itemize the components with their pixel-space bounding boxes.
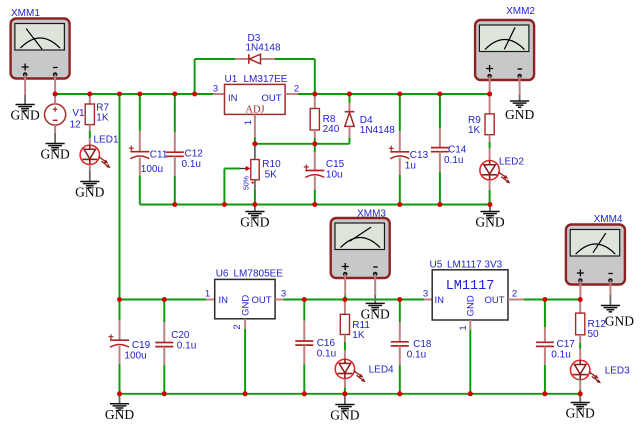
label C11 value [141, 150, 168, 176]
svg-text:1K: 1K [352, 330, 365, 341]
label C18 value [407, 339, 432, 361]
svg-text:240: 240 [323, 124, 340, 135]
V1 bottom lead [54, 125, 56, 133]
C17 bottom lead [544, 346, 546, 364]
LED1 top lead [89, 138, 91, 145]
wire R10 bottom lead [254, 180, 256, 190]
wire XMM3 + to rail [344, 296, 346, 300]
C12 bottom lead [174, 156, 176, 176]
junction input rail / C19 [117, 297, 122, 302]
ground (XMM1 +) [10, 95, 39, 123]
label R9 value [468, 115, 481, 136]
C19 top lead [119, 320, 121, 340]
wire C15 top [314, 144, 316, 152]
R12 bottom lead [579, 335, 581, 343]
svg-text:XMM3: XMM3 [357, 208, 386, 219]
junction wiper bottom [222, 202, 227, 207]
U1 IN pin lead [213, 93, 225, 95]
wire C19 bottom [119, 364, 121, 394]
XMM2 - lead [519, 76, 521, 95]
svg-text:5K: 5K [265, 170, 278, 181]
XMM4 + lead [579, 280, 581, 299]
junction C13 top [397, 92, 402, 97]
junction ADJ node [252, 141, 257, 146]
multimeter XMM4 [566, 225, 625, 285]
wire bottom input rail [120, 299, 207, 301]
XMM1 + lead [24, 74, 26, 95]
wire C16 bottom [303, 365, 305, 394]
junction R10 bottom [252, 202, 257, 207]
XMM3 - lead [374, 274, 376, 295]
junction C14 top [437, 92, 442, 97]
LED2 bottom lead [489, 180, 491, 190]
resistor R7 [85, 104, 94, 125]
R8 bottom lead [314, 130, 316, 138]
svg-text:3: 3 [213, 84, 218, 95]
svg-text:GND: GND [10, 108, 39, 123]
wire LED3 bottom [579, 390, 581, 394]
C18 bottom lead [399, 346, 401, 365]
junction C20 top [162, 297, 167, 302]
LED LED3 [571, 360, 602, 383]
svg-text:50%: 50% [244, 176, 251, 190]
C13 bottom lead [399, 158, 401, 175]
svg-text:C19: C19 [132, 340, 151, 351]
svg-text:GND: GND [105, 407, 134, 422]
wire C14 top [439, 94, 441, 128]
svg-text:0.1u: 0.1u [407, 350, 426, 361]
C12 top lead [174, 132, 176, 152]
svg-text:1: 1 [205, 289, 210, 300]
svg-text:100u: 100u [141, 164, 163, 175]
svg-text:U6: U6 [216, 268, 229, 279]
LED4 bottom lead [344, 379, 346, 388]
capacitor C16 [295, 341, 313, 345]
C11 top lead [139, 131, 141, 152]
junction C16 top [302, 297, 307, 302]
regulator U5 LM1117 3V3 [432, 270, 508, 320]
C16 bottom lead [303, 345, 305, 364]
LED3 bottom lead [579, 380, 581, 390]
svg-text:LED1: LED1 [94, 135, 119, 146]
C20 top lead [163, 322, 165, 343]
svg-text:10u: 10u [326, 170, 343, 181]
C11 bottom lead [139, 158, 141, 177]
svg-text:LM317EE: LM317EE [244, 74, 288, 85]
label V1 value [70, 108, 85, 130]
R9 bottom lead [489, 135, 491, 142]
wire C18 bottom [399, 365, 401, 394]
wire C18 top [399, 300, 401, 323]
capacitor C18 [391, 342, 409, 346]
svg-text:C11: C11 [150, 150, 168, 161]
wire U5 GND down [469, 330, 471, 394]
U6 IN pin lead [206, 299, 215, 301]
junction C15 bottom [312, 202, 317, 207]
wire R10 wiper horizontal [224, 168, 240, 170]
LED LED4 [335, 359, 366, 382]
label C19 value [124, 340, 150, 362]
svg-text:1u: 1u [405, 161, 416, 172]
ground (LED4) [330, 395, 359, 423]
svg-text:LM1117 3V3: LM1117 3V3 [447, 259, 503, 270]
junction C16 bottom [302, 391, 307, 396]
svg-text:12: 12 [70, 119, 82, 130]
LED3 top lead [579, 349, 581, 361]
ground (XMM2 -) [505, 95, 534, 122]
label U6 title [216, 268, 284, 279]
LED1 bottom lead [89, 165, 91, 172]
ground (XMM4 -) [601, 295, 634, 329]
svg-text:1N4148: 1N4148 [246, 43, 281, 54]
capacitor C20 [155, 343, 173, 347]
voltage source V1 [45, 104, 66, 125]
ground (LED2 rail) [475, 205, 504, 230]
svg-text:LED3: LED3 [605, 366, 630, 377]
capacitor C19 (polarized) [109, 334, 130, 347]
wire U6 GND down [244, 329, 246, 394]
label R10 value [262, 159, 281, 181]
wire C19 top [119, 300, 121, 321]
C17 top lead [544, 327, 546, 342]
D3 cathode-side lead [261, 58, 275, 60]
wire C11 bottom [139, 176, 141, 205]
svg-text:LED2: LED2 [499, 157, 524, 168]
wire R10 top lead [254, 144, 256, 160]
label D3 value [246, 33, 281, 54]
junction long vertical top [117, 92, 122, 97]
XMM1 - lead [54, 74, 56, 94]
wire C12 bottom [174, 176, 176, 205]
V1 top lead [54, 94, 56, 104]
svg-text:1: 1 [243, 120, 254, 125]
svg-text:1K: 1K [96, 113, 109, 124]
wire ADJ row [255, 143, 350, 145]
ground (mid rail) [240, 205, 269, 230]
svg-text:GND: GND [75, 185, 104, 200]
ground (bottom left) [105, 394, 134, 422]
svg-text:0.1u: 0.1u [444, 155, 463, 166]
wire C11 top [139, 94, 141, 131]
label D4 value [360, 115, 395, 136]
resistor R12 [576, 313, 585, 335]
U1 ADJ lead [254, 114, 256, 137]
wire C13 bottom [399, 175, 401, 205]
junction C19 bottom [117, 391, 122, 396]
svg-text:OUT: OUT [251, 295, 271, 306]
capacitor C13 (polarized) [389, 146, 410, 159]
svg-text:GND: GND [40, 147, 69, 162]
svg-text:IN: IN [219, 295, 229, 306]
svg-text:U1: U1 [225, 74, 238, 85]
U5 OUT pin lead [508, 299, 524, 301]
ground (XMM3 -) [361, 295, 390, 322]
U6 GND pin lead [244, 319, 246, 329]
wire D3 right vertical [314, 59, 316, 94]
label C14 value [444, 145, 467, 167]
wire top rail (OUT to XMM2/R9) [298, 93, 490, 95]
ground (LED3) [566, 394, 595, 421]
wire C17 bottom [544, 365, 546, 394]
label R8 value [323, 114, 340, 135]
wire D3 left top [195, 58, 236, 60]
svg-text:LED4: LED4 [369, 365, 394, 376]
svg-text:50: 50 [588, 329, 600, 340]
svg-text:LM7805EE: LM7805EE [234, 268, 284, 279]
C14 bottom lead [439, 152, 441, 172]
label U5 title [430, 259, 503, 270]
wire C20 top [163, 300, 165, 323]
junction C17 bottom [542, 391, 547, 396]
label U1 title [225, 74, 288, 85]
svg-text:ADJ: ADJ [245, 105, 264, 116]
junction D3 left / U1 IN [192, 92, 197, 97]
R9 top lead [489, 94, 491, 114]
junction C13 bottom [397, 202, 402, 207]
label R7 value [96, 103, 109, 124]
U5 IN pin lead [424, 299, 432, 301]
svg-text:XMM4: XMM4 [594, 214, 623, 225]
C18 top lead [399, 322, 401, 342]
svg-text:3: 3 [423, 289, 428, 300]
capacitor C15 (polarized) [304, 165, 325, 178]
svg-text:1K: 1K [468, 125, 481, 136]
svg-text:2: 2 [512, 289, 517, 300]
C16 top lead [303, 321, 305, 342]
wire D4 top [349, 94, 351, 103]
C14 top lead [439, 128, 441, 148]
XMM3 + lead [344, 274, 346, 296]
wire R8 to ADJ row [314, 138, 316, 144]
svg-text:2: 2 [232, 324, 243, 329]
wire R9 to LED2 [489, 142, 491, 148]
svg-text:XMM1: XMM1 [11, 8, 40, 19]
LED LED2 [480, 161, 511, 184]
multimeter XMM3 [331, 218, 390, 278]
svg-text:LM1117: LM1117 [446, 279, 495, 294]
label C13 value [405, 150, 429, 172]
svg-text:V1: V1 [72, 108, 85, 119]
C13 top lead [399, 131, 401, 152]
svg-text:IN: IN [228, 93, 238, 104]
svg-text:C12: C12 [185, 149, 204, 160]
regulator U6 LM7805EE [215, 279, 275, 318]
junction XMM4/R12 [578, 297, 583, 302]
wire long vertical to bottom section [119, 94, 121, 300]
U6 OUT pin lead [275, 299, 283, 301]
wire D4 to ADJ row [349, 138, 351, 144]
svg-text:GND: GND [475, 215, 504, 230]
svg-text:1N4148: 1N4148 [360, 125, 395, 136]
R11 top lead [344, 300, 346, 315]
diode D3 [249, 54, 261, 64]
D4 cathode lead [349, 103, 351, 112]
junction node V1/XMM1 [53, 92, 58, 97]
LED2 top lead [489, 148, 491, 161]
svg-text:GND: GND [605, 314, 634, 329]
wire 3V3 output rail [524, 299, 580, 301]
svg-text:1: 1 [458, 325, 469, 330]
wire ADJ to node [254, 138, 256, 144]
wire LED2 bottom [489, 190, 491, 205]
svg-text:C18: C18 [413, 339, 432, 350]
wire R12 to LED3 [579, 343, 581, 349]
junction C18 top [397, 297, 402, 302]
D4 anode lead [349, 126, 351, 137]
XMM4 - lead [609, 280, 611, 295]
LED LED1 [80, 145, 110, 168]
LED4 top lead [344, 350, 346, 359]
wire C20 bottom [163, 365, 165, 394]
C20 bottom lead [163, 347, 165, 365]
wire mid ground rail [140, 204, 490, 206]
svg-text:C15: C15 [326, 159, 345, 170]
junction R8/C15 node [312, 141, 317, 146]
junction LED3 bottom [578, 391, 583, 396]
wire C14 bottom [439, 172, 441, 205]
wire LED4 bottom [344, 388, 346, 394]
junction XMM2/R9 [487, 92, 492, 97]
svg-text:3: 3 [281, 289, 286, 300]
wire R11 to LED4 [344, 342, 346, 350]
svg-text:GND: GND [240, 215, 269, 230]
wire R10 wiper vertical [223, 169, 225, 205]
D3 anode-side lead [235, 58, 249, 60]
svg-text:GND: GND [241, 295, 252, 316]
U1 OUT pin lead [285, 93, 298, 95]
C15 bottom lead [314, 176, 316, 190]
capacitor C12 [166, 152, 184, 156]
junction U5 GND bottom [468, 391, 473, 396]
C19 bottom lead [119, 346, 121, 364]
svg-text:IN: IN [435, 295, 445, 306]
wire C17 top [544, 300, 546, 328]
op-amp / regulator U1 LM317EE [225, 84, 286, 115]
wire D3 right top [275, 58, 315, 60]
junction C12 top [172, 92, 177, 97]
svg-text:0.1u: 0.1u [177, 341, 196, 352]
capacitor C14 [431, 148, 449, 152]
svg-text:0.1u: 0.1u [551, 350, 570, 361]
junction C17 top [542, 297, 547, 302]
XMM2 + lead [489, 76, 491, 94]
svg-text:0.1u: 0.1u [317, 349, 336, 360]
wire 5V output rail [284, 299, 425, 301]
svg-text:C17: C17 [557, 339, 576, 350]
junction LED2 bottom [488, 202, 493, 207]
junction LED4 bottom [342, 391, 347, 396]
wire C15 bottom [314, 190, 316, 205]
label C16 value [317, 338, 336, 360]
svg-text:GND: GND [505, 107, 534, 122]
R8 top lead [314, 94, 316, 109]
junction C11 top [137, 92, 142, 97]
capacitor C11 (polarized) [129, 146, 150, 159]
junction R7 top [87, 92, 92, 97]
multimeter XMM1 [11, 19, 70, 79]
junction XMM3/R11 [342, 297, 347, 302]
resistor R8 [310, 109, 319, 131]
svg-text:C16: C16 [317, 338, 336, 349]
R7 top lead [89, 94, 91, 104]
R7 bottom lead [89, 125, 91, 131]
svg-text:GND: GND [466, 295, 477, 316]
label R12 value [588, 319, 607, 340]
svg-text:2: 2 [294, 84, 299, 95]
multimeter XMM2 [475, 20, 534, 80]
R11 bottom lead [344, 335, 346, 343]
svg-text:0.1u: 0.1u [182, 159, 201, 170]
junction U6 GND bottom [243, 391, 248, 396]
wire R10 bottom [254, 190, 256, 205]
junction C14 bottom [437, 202, 442, 207]
wire top rail (V1 to U1 IN) [55, 93, 213, 95]
junction C20 bottom [162, 391, 167, 396]
potentiometer R10 [240, 160, 259, 184]
wire R7 to LED1 [89, 131, 91, 138]
label C12 value [182, 149, 204, 171]
junction D4 top [347, 92, 352, 97]
ground (V1) [40, 133, 69, 162]
resistor R11 [340, 314, 349, 334]
U5 GND pin lead [469, 320, 471, 330]
resistor R9 [485, 114, 494, 135]
junction C18 bottom [397, 391, 402, 396]
diode D4 [345, 112, 355, 127]
wire D3 left vertical [194, 59, 196, 94]
svg-text:OUT: OUT [484, 295, 504, 306]
capacitor C17 [536, 342, 554, 346]
wire bottom ground rail [120, 393, 581, 395]
label C17 value [551, 339, 575, 361]
C15 top lead [314, 152, 316, 171]
svg-text:100u: 100u [124, 351, 146, 362]
svg-text:C14: C14 [448, 145, 467, 156]
svg-text:C20: C20 [171, 330, 190, 341]
svg-text:U5: U5 [430, 259, 443, 270]
ground (LED1) [75, 171, 104, 200]
label C15 value [326, 159, 345, 181]
label R11 value [352, 320, 370, 341]
wire C16 top [303, 300, 305, 321]
svg-text:OUT: OUT [261, 93, 281, 104]
svg-text:XMM2: XMM2 [506, 6, 535, 17]
svg-text:GND: GND [566, 406, 595, 421]
svg-text:GND: GND [330, 408, 359, 423]
svg-text:C13: C13 [410, 150, 429, 161]
R12 top lead [579, 300, 581, 314]
label C20 value [171, 330, 196, 352]
junction C12 bottom [172, 202, 177, 207]
wire C13 top [399, 94, 401, 131]
junction D3 right / R8 top [312, 92, 317, 97]
wire C12 top [174, 94, 176, 132]
svg-text:R10: R10 [262, 159, 281, 170]
